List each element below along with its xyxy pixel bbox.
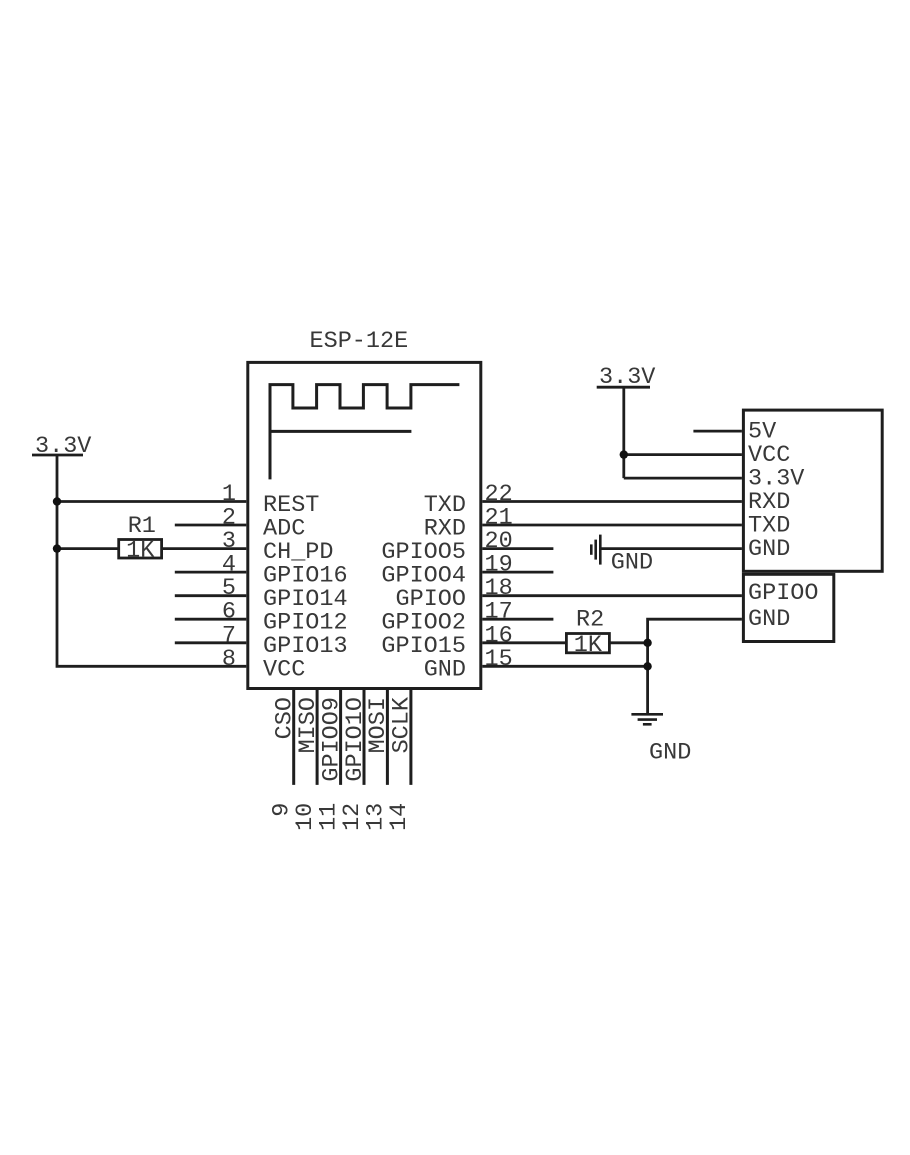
wire pin5 GPIO14 stub: [175, 594, 247, 597]
resistor R2 body: [566, 634, 609, 653]
wire pin7 GPIO13 stub: [175, 641, 247, 644]
antenna feed line: [270, 430, 411, 433]
wire pin18 GPIO0 to adapter GPIO0: [482, 594, 742, 597]
svg-text:GND: GND: [424, 657, 466, 684]
junction dot rail pin3: [53, 544, 61, 552]
IC U1 ESP-12E body: [248, 362, 481, 688]
ground symbol bottom right: [631, 714, 663, 724]
svg-text:3.3V: 3.3V: [599, 364, 655, 391]
resistor R1 body: [119, 540, 162, 559]
power symbol 3.3V left bar: [32, 454, 83, 457]
wire pin17 GPIO02 stub: [482, 618, 553, 621]
wire pin16 GPIO15 to resistor R2: [482, 641, 566, 644]
svg-text:R2: R2: [576, 607, 604, 634]
junction dot pin15 node: [643, 662, 651, 670]
wire R1 to pin3 CH_PD: [162, 547, 247, 550]
bottom pin 9 CSO lead: [292, 690, 295, 785]
svg-text:SCLK: SCLK: [389, 696, 416, 753]
connector J1 USB adapter body: [743, 410, 882, 571]
svg-text:GPIOO: GPIOO: [748, 580, 819, 607]
wire adapter GND to ground symbol: [600, 547, 742, 550]
wire pin22 TXD to adapter RXD: [482, 500, 742, 503]
junction dot rail pin1: [53, 497, 61, 505]
wire pin1 REST to 3.3V rail: [57, 500, 246, 503]
svg-text:GND: GND: [748, 536, 790, 563]
svg-text:R1: R1: [128, 513, 156, 540]
bottom pin 12 GPIO10 lead: [363, 690, 366, 785]
bottom pin 11 GPIO09 lead: [339, 690, 342, 785]
junction dot R2 node: [643, 639, 651, 647]
svg-text:15: 15: [485, 646, 513, 673]
wire pin15 GND to ground node: [482, 665, 647, 668]
bottom pin 10 MISO lead: [316, 690, 319, 785]
wire 3.3V to adapter VCC: [624, 453, 742, 456]
svg-text:8: 8: [222, 646, 236, 673]
svg-text:GND: GND: [748, 606, 790, 633]
svg-text:GND: GND: [611, 550, 653, 577]
junction dot 3.3V VCC: [620, 450, 628, 458]
net 3.3V left rail wire: [57, 455, 246, 666]
wire rail to resistor R1: [57, 547, 119, 550]
wire R2 to ground node: [609, 641, 647, 644]
power symbol 3.3V right bar: [597, 386, 650, 389]
wire pin20 GPIO05 stub: [482, 547, 553, 550]
ground symbol sideways near pin20: [591, 535, 600, 565]
wire pin21 RXD to adapter TXD: [482, 524, 742, 527]
svg-text:1K: 1K: [574, 632, 603, 659]
svg-text:ESP-12E: ESP-12E: [310, 328, 409, 355]
net 3.3V right drop wire: [622, 387, 625, 478]
wire pin6 GPIO12 stub: [175, 618, 247, 621]
bottom pin 14 SCLK lead: [409, 690, 412, 785]
svg-text:GND: GND: [649, 739, 691, 766]
wire pin4 GPIO16 stub: [175, 571, 247, 574]
svg-text:VCC: VCC: [263, 657, 305, 684]
svg-text:3.3V: 3.3V: [35, 433, 91, 460]
antenna meander inside ESP-12E: [270, 385, 459, 480]
wire adapter GND2 down to ground: [648, 619, 742, 714]
svg-text:14: 14: [386, 803, 413, 831]
wire pin2 ADC stub: [175, 524, 247, 527]
wire 3.3V to adapter 3.3V: [624, 477, 742, 480]
svg-text:1K: 1K: [126, 537, 155, 564]
connector J1 lower body: [743, 574, 833, 641]
bottom pin 13 MOSI lead: [386, 690, 389, 785]
wire pin19 GPIO04 stub: [482, 571, 553, 574]
wire adapter 5V stub: [693, 430, 742, 433]
